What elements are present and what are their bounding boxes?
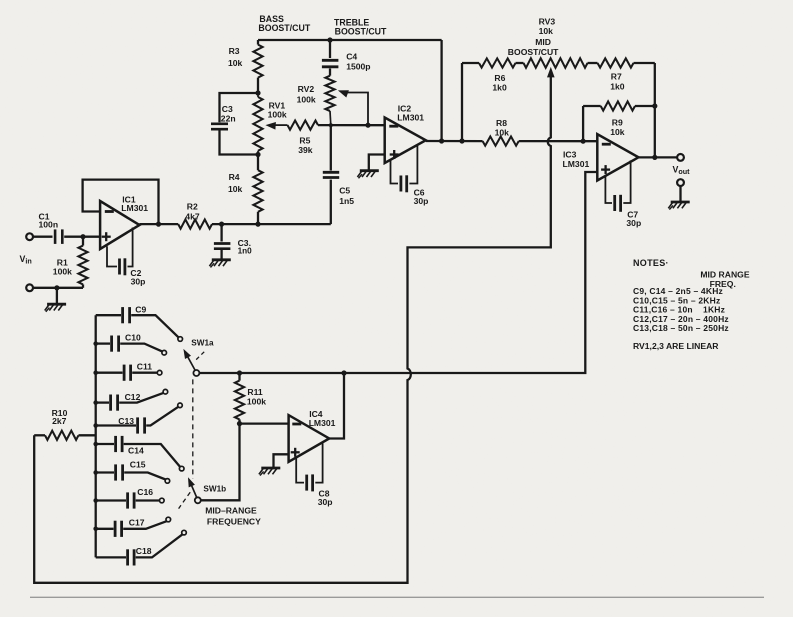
svg-text:MID–RANGE: MID–RANGE [205, 505, 257, 515]
svg-text:LM301: LM301 [397, 113, 424, 123]
ground input [45, 304, 66, 312]
capacitor C12 [96, 392, 164, 411]
wire R11 to IC4 - input [240, 422, 289, 424]
junction bus [93, 442, 98, 447]
switch SW1a contact C12 [163, 389, 168, 394]
svg-text:RV1,2,3 ARE LINEAR: RV1,2,3 ARE LINEAR [633, 341, 719, 351]
capacitor C9 [96, 305, 179, 338]
svg-text:C16: C16 [137, 487, 153, 497]
svg-text:FREQUENCY: FREQUENCY [207, 516, 261, 526]
svg-text:R3: R3 [229, 46, 240, 56]
svg-text:22n: 22n [221, 114, 236, 124]
capacitor C11 [96, 362, 158, 381]
resistor R8 10k [483, 118, 519, 146]
svg-text:30p: 30p [414, 196, 429, 206]
capacitor C13 [96, 407, 178, 434]
svg-text:RV3: RV3 [539, 16, 556, 26]
svg-text:10k: 10k [495, 127, 510, 137]
label MID-RANGE FREQUENCY [205, 505, 261, 526]
node Vout label [673, 164, 691, 176]
svg-text:10k: 10k [539, 26, 554, 36]
label BASS BOOST/CUT [258, 14, 310, 33]
capacitor C18 [96, 534, 183, 565]
resistor R7 1k0 [588, 58, 655, 91]
svg-text:100k: 100k [247, 397, 266, 407]
junction ground stem [54, 285, 59, 290]
switch SW1a common [193, 370, 199, 376]
wire R11 junction down to SW1b [201, 424, 239, 501]
svg-text:Vout: Vout [673, 164, 691, 176]
svg-text:C12: C12 [125, 392, 141, 402]
node Vin label [20, 254, 32, 266]
svg-text:C4: C4 [346, 51, 357, 61]
wire R1 bottom to lower input terminal [33, 287, 83, 289]
svg-text:C5: C5 [339, 186, 350, 196]
capacitor C8 30p [296, 443, 332, 507]
output terminal Vout [677, 154, 684, 161]
wire R9 left drop [582, 106, 584, 141]
switch SW1b contact C18 [182, 530, 187, 535]
junction R9 right [652, 103, 657, 108]
scan line bottom [30, 596, 764, 598]
input terminal Vin bottom [26, 284, 33, 291]
junction bus [93, 470, 98, 475]
svg-text:Vin: Vin [20, 254, 32, 266]
capacitor C3. 1n0 [214, 224, 252, 259]
ground output [668, 202, 689, 210]
svg-text:10k: 10k [228, 184, 243, 194]
capacitor C14 [96, 436, 180, 467]
svg-text:LM301: LM301 [309, 418, 336, 428]
svg-text:IC3: IC3 [563, 150, 577, 160]
wire capacitor bank bus [95, 315, 97, 557]
switch SW1b contact C17 [166, 517, 171, 522]
resistor R3 10k [228, 40, 263, 93]
svg-text:4k7: 4k7 [185, 212, 200, 222]
wire R6 drop vertical [461, 63, 463, 141]
op-amp IC4 LM301 [289, 409, 336, 462]
svg-text:BOOST/CUT: BOOST/CUT [508, 47, 559, 57]
ground IC4 [259, 468, 280, 476]
junction RV1 bottom / C3 [255, 152, 260, 157]
svg-text:39k: 39k [298, 145, 313, 155]
wiper arrow RV2 [338, 90, 368, 125]
svg-text:1n5: 1n5 [339, 196, 354, 206]
wire IC2 + input to ground [369, 155, 385, 170]
op-amp IC1 LM301 [100, 195, 148, 250]
svg-text:10k: 10k [228, 58, 243, 68]
wire IC1 feedback loop [83, 180, 159, 225]
svg-text:C13: C13 [118, 416, 134, 426]
junction RV2 wiper drop [365, 123, 370, 128]
junction treble feedback [439, 138, 444, 143]
svg-text:30p: 30p [626, 218, 641, 228]
wire input to C1 [33, 236, 53, 238]
wire C1 to IC1 + input [64, 236, 100, 238]
svg-text:100n: 100n [39, 219, 59, 229]
svg-text:30p: 30p [318, 497, 333, 507]
capacitor C1 100n [39, 212, 63, 244]
resistor R1 100k [53, 237, 88, 288]
label MID RANGE FREQ [700, 269, 749, 289]
wire IC3 output [639, 156, 678, 158]
switch SW1b contact C16 [160, 498, 165, 503]
switch SW1a contact C9 [178, 337, 183, 342]
resistor R9 10k [583, 101, 655, 136]
svg-text:C11: C11 [137, 362, 153, 372]
potentiometer RV2 100k [297, 76, 335, 126]
junction RV2 bottom [329, 123, 333, 127]
switch SW1a contact C13 [178, 403, 183, 408]
junction bus [93, 400, 98, 405]
resistor R2 4k7 [178, 201, 212, 228]
wire R8 to IC3 [519, 140, 598, 142]
resistor R6 1k0 [462, 58, 516, 92]
svg-text:C9: C9 [135, 305, 146, 315]
svg-text:LM301: LM301 [121, 203, 148, 213]
junction C4 top [327, 37, 332, 42]
svg-text:1n0: 1n0 [238, 247, 253, 256]
potentiometer RV1 100k [253, 93, 287, 155]
svg-text:C15: C15 [130, 460, 146, 470]
output terminal lower [677, 179, 684, 186]
svg-text:C18: C18 [136, 546, 152, 556]
capacitor C2 30p [107, 228, 145, 287]
ground C3. [209, 260, 230, 268]
svg-text:LM301: LM301 [563, 159, 590, 169]
label TREBLE BOOST/CUT [334, 18, 387, 37]
capacitor C15 [96, 460, 166, 481]
junction C1/R1 [80, 234, 85, 239]
capacitor C6 30p [391, 146, 429, 206]
svg-text:RV2: RV2 [298, 84, 315, 94]
svg-text:C17: C17 [129, 518, 145, 528]
wire R5 to IC2 inverting input [318, 124, 385, 126]
svg-text:10k: 10k [610, 127, 625, 137]
junction R3/RV1/C3 [255, 90, 260, 95]
junction bus [93, 341, 98, 346]
switch SW1b common [195, 497, 201, 503]
switch SW1a contact C10 [162, 350, 167, 355]
svg-text:2k7: 2k7 [52, 416, 67, 426]
switch SW1b contact C15 [165, 479, 170, 484]
capacitor C17 [96, 518, 167, 537]
dashed gang line SW1a-SW1b [192, 379, 194, 478]
junction IC4 output rail [341, 370, 346, 375]
svg-text:SW1b: SW1b [203, 485, 226, 494]
resistor R11 100k [235, 373, 266, 424]
junction IC3 output [652, 155, 657, 160]
svg-text:1k0: 1k0 [610, 81, 625, 91]
svg-text:MID: MID [535, 37, 551, 47]
switch SW1b contact C14 [179, 466, 184, 471]
junction bus [93, 527, 98, 532]
svg-text:C13,C18 – 50n – 250Hz: C13,C18 – 50n – 250Hz [633, 323, 729, 333]
svg-text:1500p: 1500p [346, 61, 370, 71]
junction bus [93, 370, 98, 375]
junction R6 drop [459, 138, 464, 143]
capacitor C5 1n5 [323, 125, 354, 224]
resistor R10 2k7 [34, 408, 95, 440]
junction C3. node [219, 222, 224, 227]
junction R4 bottom rail [255, 222, 260, 227]
wire top bass/treble feedback [258, 39, 442, 41]
potentiometer RV3 10k MID BOOST/CUT [508, 16, 588, 67]
svg-text:BOOST/CUT: BOOST/CUT [258, 23, 310, 33]
svg-text:C10: C10 [125, 333, 141, 343]
switch SW1a wiper [183, 349, 195, 370]
svg-text:100k: 100k [297, 94, 316, 104]
capacitor C4 1500p [322, 40, 371, 76]
svg-text:MID RANGE: MID RANGE [700, 269, 749, 279]
label SW1b [203, 485, 226, 494]
label cap table [633, 286, 729, 333]
ground IC2 [357, 171, 378, 179]
svg-text:C14: C14 [128, 446, 144, 456]
wire right feedback vertical [654, 63, 656, 158]
label SW1a [191, 339, 214, 348]
svg-text:BOOST/CUT: BOOST/CUT [335, 27, 387, 37]
svg-text:R2: R2 [187, 201, 198, 211]
junction feedback/output [156, 222, 161, 227]
switch SW1a contact C11 [157, 370, 162, 375]
svg-text:NOTES·: NOTES· [633, 258, 669, 268]
resistor R5 39k [288, 121, 319, 156]
wire IC4 + input to ground [274, 454, 289, 467]
svg-text:30p: 30p [131, 276, 146, 286]
svg-text:SW1a: SW1a [191, 339, 214, 348]
capacitor C10 [96, 333, 163, 352]
svg-text:R5: R5 [299, 136, 310, 146]
op-amp IC3 LM301 [563, 134, 639, 180]
wire to ground [56, 288, 58, 304]
svg-text:1k0: 1k0 [492, 82, 507, 92]
svg-text:R11: R11 [247, 387, 263, 397]
wire IC3 + input down to mid network [200, 172, 598, 373]
junction bus [93, 498, 98, 503]
capacitor C3 22n [211, 93, 258, 155]
junction R8/R9/IC3 [581, 139, 586, 144]
junction R11 top [237, 370, 242, 375]
label NOTES [633, 258, 669, 268]
resistor R4 10k [228, 155, 263, 225]
wire IC1 output [140, 223, 179, 225]
label RV linear note [633, 341, 719, 351]
junction bus [93, 423, 98, 428]
wire R2 to bass network [212, 223, 331, 225]
wire output ground stem [679, 186, 681, 201]
wire IC4 output up to rail [329, 373, 344, 439]
op-amp IC2 LM301 [385, 104, 426, 164]
wire treble feedback vertical [440, 40, 442, 141]
svg-text:R4: R4 [229, 172, 240, 182]
svg-text:100k: 100k [53, 266, 72, 276]
svg-text:R7: R7 [611, 72, 622, 82]
wire IC2 output to IC3 input (R8 rail) [426, 140, 483, 142]
junction R11 bottom [237, 421, 242, 426]
wiper arrow RV1 [265, 122, 287, 130]
switch SW1b wiper [188, 477, 197, 497]
dashed link SW1b [179, 492, 191, 508]
capacitor C16 [96, 487, 160, 509]
input terminal Vin top [26, 233, 33, 240]
svg-text:100k: 100k [268, 110, 287, 120]
capacitor C7 30p [605, 160, 641, 228]
wiper arrow RV3 and long wire to mid network [34, 67, 554, 583]
dashed link SW1a [195, 352, 204, 361]
